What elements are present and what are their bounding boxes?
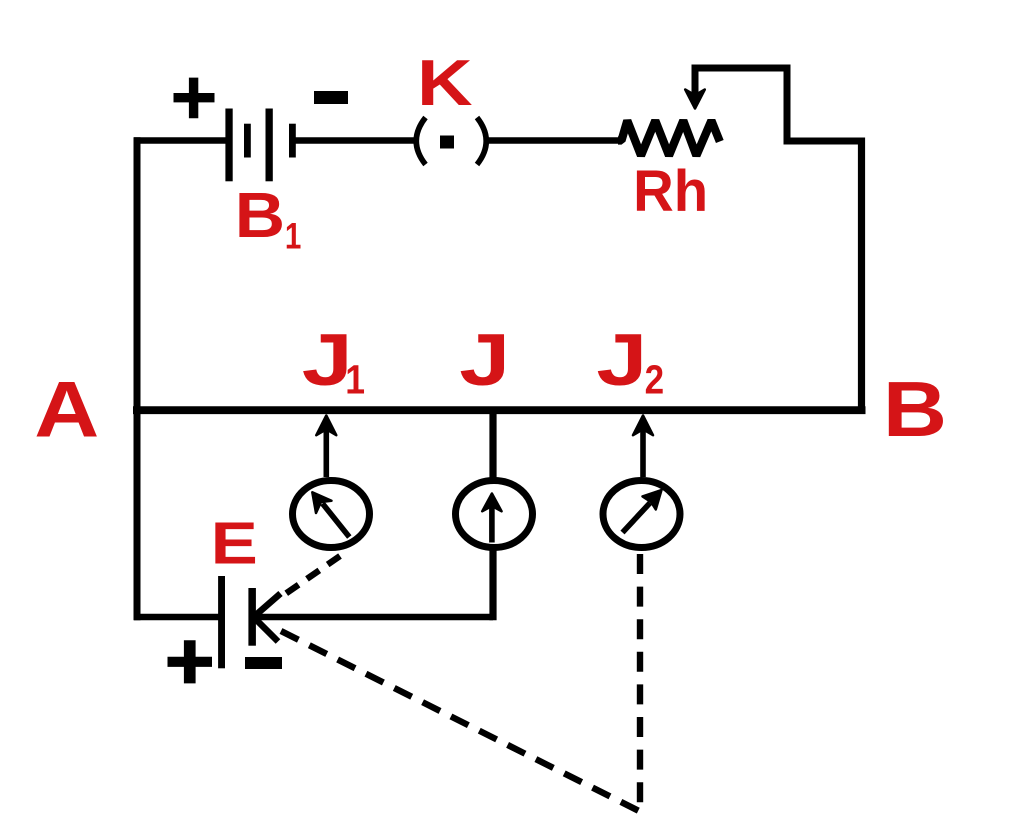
wire galvanometer G2 to bottom [489, 549, 496, 620]
svg-text:K: K [417, 48, 473, 120]
label K [417, 48, 473, 120]
galvanometer G1 [293, 481, 370, 548]
wire right vertical to B [858, 138, 865, 413]
wire J to galvanometer G2 [489, 413, 496, 481]
galvanometer G2 [456, 481, 533, 548]
rheostat Rh zigzag [618, 121, 720, 156]
battery plus sign [174, 78, 215, 119]
dashed jockey path vertical below galvanometer G3 [637, 554, 643, 811]
wire battery to key K [296, 137, 417, 144]
wire top-left horizontal (node to battery +) [134, 137, 227, 144]
cell E long plate (+) [218, 576, 225, 668]
battery B1 plate 2 short (-) [244, 124, 251, 158]
svg-text:J: J [596, 319, 647, 401]
node A label [34, 366, 99, 453]
svg-text:Rh: Rh [633, 159, 708, 224]
galvanometer G1 needle [323, 504, 350, 538]
rheostat wiper arm wire [695, 68, 862, 141]
jockey J1 arrow shaft [323, 427, 329, 477]
jockey arrowhead at cell E lower barb [254, 617, 279, 642]
svg-text:A: A [34, 366, 99, 453]
label J1 [302, 319, 353, 401]
wire cell E to galvanometer G2 bottom [254, 614, 493, 621]
cell E short plate (-) [248, 588, 256, 646]
label J [459, 319, 510, 401]
battery B1 plate 4 short (-) [289, 124, 296, 158]
dashed jockey path from galvanometer G1 to cell E [278, 556, 340, 599]
svg-text:1: 1 [285, 216, 301, 257]
jockey J1 arrowhead [316, 416, 336, 436]
wire A down to cell E [134, 614, 219, 621]
label E [211, 510, 258, 576]
label Rh [633, 159, 708, 224]
wire key to rheostat [486, 137, 621, 144]
wire left vertical A branch [134, 137, 141, 620]
svg-text:B: B [883, 365, 947, 453]
galvanometer G2 needle [489, 506, 495, 543]
key K left paren [416, 118, 425, 165]
node B label [883, 365, 947, 453]
key K right paren [477, 118, 486, 165]
jockey arrowhead at cell E upper barb [254, 594, 281, 618]
potentiometer wire A-B [133, 406, 866, 414]
svg-text:E: E [211, 510, 258, 576]
rheostat wiper arrowhead [685, 90, 705, 109]
galvanometer G3 needle [623, 503, 651, 533]
label J2 [596, 319, 647, 401]
galvanometer G3 [603, 481, 680, 548]
battery B1 plate 1 long (+) [225, 109, 232, 182]
cell E minus sign [245, 657, 282, 669]
svg-text:1: 1 [345, 357, 365, 403]
battery minus sign [314, 91, 348, 104]
jockey J2 arrow shaft [640, 427, 646, 477]
battery B1 plate 3 long (+) [266, 109, 273, 182]
label B1 [235, 180, 285, 252]
cell E plus sign [168, 640, 213, 683]
key K contact dot [440, 136, 454, 149]
svg-text:B: B [235, 180, 285, 252]
jockey J2 arrowhead [633, 416, 653, 436]
svg-text:J: J [459, 319, 510, 401]
svg-text:2: 2 [645, 357, 664, 403]
dashed jockey path from cell E to bottom point [281, 631, 639, 811]
